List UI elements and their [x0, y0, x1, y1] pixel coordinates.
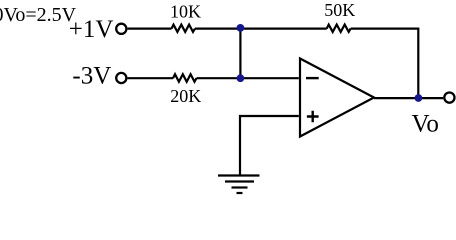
svg-text:20K: 20K: [170, 86, 201, 106]
svg-text:Vo: Vo: [412, 111, 439, 138]
svg-text:+1V: +1V: [69, 16, 114, 43]
svg-text:50K: 50K: [324, 0, 355, 20]
svg-text:10K: 10K: [170, 2, 201, 22]
svg-text:0Vo=2.5V: 0Vo=2.5V: [0, 4, 77, 26]
svg-text:-3V: -3V: [72, 63, 111, 90]
